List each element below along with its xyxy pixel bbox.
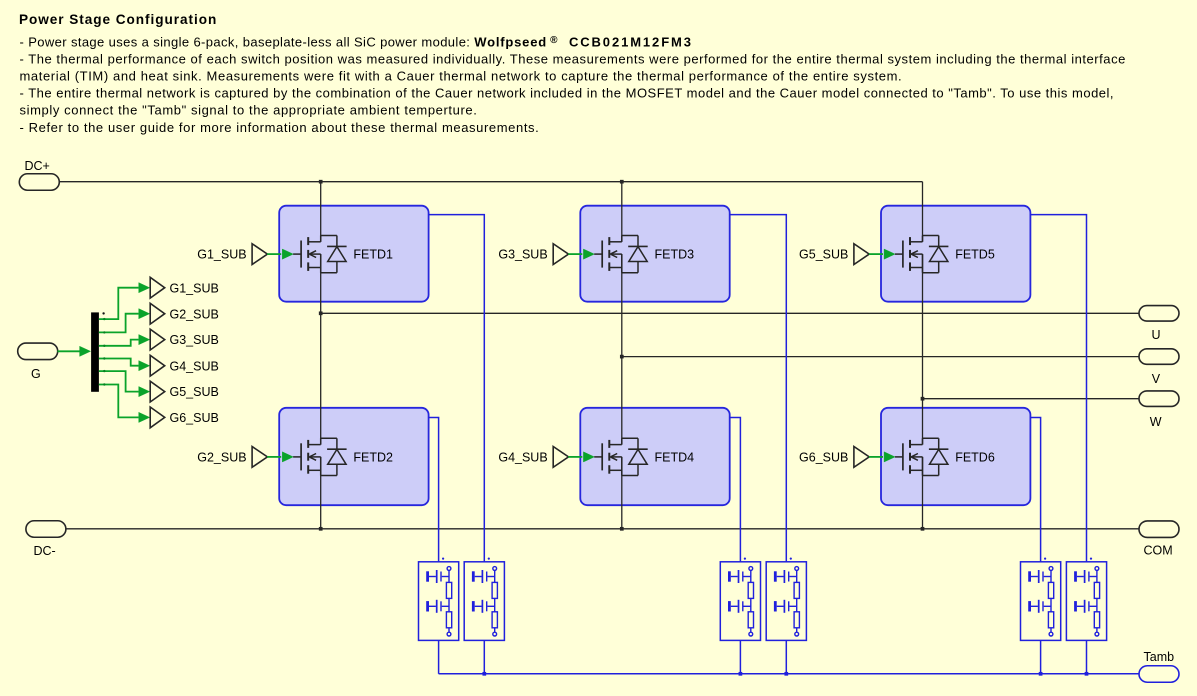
wire DC- bottom rail xyxy=(66,528,1140,530)
wire phase U xyxy=(321,312,1140,314)
svg-text:G6_SUB: G6_SUB xyxy=(799,451,848,465)
wire leg 1 lower source to DC- rail xyxy=(320,457,322,529)
svg-text:G2_SUB: G2_SUB xyxy=(170,307,219,321)
wire CAUER6 to Tamb bus xyxy=(1086,640,1088,673)
svg-text:G5_SUB: G5_SUB xyxy=(170,385,219,399)
svg-text:DC-: DC- xyxy=(34,544,56,558)
mosfet FETD2 xyxy=(293,438,347,475)
port COM xyxy=(1139,521,1179,538)
svg-text:- The entire thermal network i: - The entire thermal network is captured… xyxy=(20,86,1115,101)
svg-text:G4_SUB: G4_SUB xyxy=(170,359,219,373)
arrowhead at FETD4 gate xyxy=(583,452,594,462)
svg-text:FETD3: FETD3 xyxy=(655,248,695,262)
Cauer network CAUER5 box xyxy=(1021,562,1061,641)
Cauer network CAUER1 box xyxy=(419,562,459,641)
wire gate bus to G5_SUB goto xyxy=(99,371,139,392)
wire CAUER1 to Tamb bus xyxy=(438,640,440,673)
gate wire into FETD2 xyxy=(267,456,281,458)
mosfet FETD4 xyxy=(594,438,648,475)
arrowhead into G1_SUB goto xyxy=(139,283,150,293)
module box FETD6 xyxy=(881,408,1030,505)
module box FETD1 xyxy=(279,206,428,302)
wire CAUER5 to Tamb bus xyxy=(1040,640,1042,673)
Cauer network CAUER2 box xyxy=(464,562,504,641)
svg-text:G2_SUB: G2_SUB xyxy=(197,451,246,465)
wire leg 3 lower source to DC- rail xyxy=(922,457,924,529)
junction Tamb bus x1086 xyxy=(1085,672,1089,676)
wire G to gate bus xyxy=(57,350,80,352)
signal goto tag G1_SUB xyxy=(150,277,165,298)
module box FETD3 xyxy=(580,206,729,302)
svg-text:- Refer to the user guide for: - Refer to the user guide for more infor… xyxy=(20,120,540,135)
gate wire into FETD3 xyxy=(568,253,582,255)
signal goto tag G5_SUB xyxy=(150,381,165,402)
signal goto tag G3_SUB xyxy=(150,329,165,350)
svg-text:- Power stage uses a single 6-: - Power stage uses a single 6-pack, base… xyxy=(20,35,693,50)
arrowhead into G5_SUB goto xyxy=(139,387,150,397)
wire CAUER4 to Tamb bus xyxy=(785,640,787,673)
svg-text:FETD5: FETD5 xyxy=(955,248,995,262)
thermal wire FETD2 to Cauer xyxy=(429,418,439,562)
svg-text:Power Stage Configuration: Power Stage Configuration xyxy=(19,12,217,27)
mosfet FETD5 xyxy=(895,236,949,273)
port V xyxy=(1139,349,1179,365)
wire leg 2 drain upper xyxy=(621,182,623,242)
signal from tag for FETD4 gate xyxy=(553,447,568,468)
wire phase V xyxy=(622,356,1140,358)
junction Tamb bus x1040 xyxy=(1039,672,1043,676)
signal goto tag G6_SUB xyxy=(150,407,165,428)
gate wire into FETD1 xyxy=(267,253,281,255)
wire gate bus to G1_SUB goto xyxy=(99,288,139,319)
Cauer network CAUER4 box xyxy=(766,562,806,641)
mosfet FETD6 xyxy=(895,438,949,475)
gate bus bar xyxy=(91,312,99,391)
junction bottom rail / FETD4 source xyxy=(620,527,624,531)
port DC+ xyxy=(19,174,59,191)
svg-text:FETD2: FETD2 xyxy=(353,451,393,465)
wire phase W xyxy=(923,398,1140,400)
svg-text:G1_SUB: G1_SUB xyxy=(170,281,219,295)
wire leg 3 mid (upper source to lower drain) xyxy=(922,254,924,445)
svg-text:G6_SUB: G6_SUB xyxy=(170,411,219,425)
svg-text:G1_SUB: G1_SUB xyxy=(197,248,246,262)
svg-text:COM: COM xyxy=(1144,544,1173,558)
thermal wire FETD5 to Cauer xyxy=(1030,215,1086,562)
port DC- xyxy=(26,521,66,538)
svg-text:G3_SUB: G3_SUB xyxy=(170,333,219,347)
junction Tamb bus x484 xyxy=(482,672,486,676)
wire leg 1 drain upper xyxy=(320,182,322,242)
svg-text:W: W xyxy=(1150,415,1162,429)
arrowhead into G2_SUB goto xyxy=(139,309,150,319)
thermal wire FETD1 to Cauer xyxy=(429,215,485,562)
svg-text:DC+: DC+ xyxy=(25,159,50,173)
arrowhead into G3_SUB goto xyxy=(139,335,150,345)
svg-text:U: U xyxy=(1152,328,1161,342)
junction phase U / leg 1 xyxy=(319,311,323,315)
junction bottom rail / FETD2 source xyxy=(319,527,323,531)
arrowhead at FETD6 gate xyxy=(884,452,895,462)
arrowhead into G6_SUB goto xyxy=(139,412,150,422)
gate wire into FETD4 xyxy=(568,456,582,458)
arrowhead at FETD3 gate xyxy=(583,249,594,259)
signal from tag for FETD1 gate xyxy=(252,244,267,265)
arrowhead at FETD2 gate xyxy=(282,452,293,462)
svg-text:- The thermal performance of e: - The thermal performance of each switch… xyxy=(20,52,1126,67)
wire gate bus to G2_SUB goto xyxy=(99,314,139,333)
junction top rail / FETD3 drain xyxy=(620,180,624,184)
wire gate bus to G6_SUB goto xyxy=(99,385,139,418)
wire leg 3 drain upper xyxy=(922,182,924,242)
Cauer network CAUER6 box xyxy=(1066,562,1106,641)
svg-text:V: V xyxy=(1152,372,1161,386)
junction Tamb bus x740 xyxy=(739,672,743,676)
signal from tag for FETD5 gate xyxy=(854,244,869,265)
wire leg 1 mid (upper source to lower drain) xyxy=(320,254,322,445)
module box FETD2 xyxy=(279,408,428,505)
port G xyxy=(18,343,58,360)
mosfet FETD1 xyxy=(293,236,347,273)
wire Tamb bus xyxy=(439,673,1140,675)
wire gate bus to G4_SUB goto xyxy=(99,359,139,366)
arrowhead into gate bus xyxy=(80,346,91,356)
wire CAUER2 to Tamb bus xyxy=(483,640,485,673)
signal from tag for FETD2 gate xyxy=(252,447,267,468)
svg-text:G5_SUB: G5_SUB xyxy=(799,248,848,262)
wire DC+ top rail xyxy=(59,181,922,183)
signal goto tag G4_SUB xyxy=(150,355,165,376)
mosfet FETD3 xyxy=(594,236,648,273)
svg-text:FETD6: FETD6 xyxy=(955,451,995,465)
wire leg 2 mid (upper source to lower drain) xyxy=(621,254,623,445)
thermal wire FETD3 to Cauer xyxy=(730,215,787,562)
arrowhead at FETD1 gate xyxy=(282,249,293,259)
signal from tag for FETD3 gate xyxy=(553,244,568,265)
arrowhead into G4_SUB goto xyxy=(139,361,150,371)
svg-text:simply connect the "Tamb" sign: simply connect the "Tamb" signal to the … xyxy=(20,103,478,118)
wire CAUER3 to Tamb bus xyxy=(739,640,741,673)
svg-text:material (TIM) and heat sink.: material (TIM) and heat sink. Measuremen… xyxy=(20,69,903,84)
arrowhead at FETD5 gate xyxy=(884,249,895,259)
thermal wire FETD6 to Cauer xyxy=(1030,418,1040,562)
svg-text:G: G xyxy=(31,367,41,381)
port W xyxy=(1139,391,1179,407)
junction Tamb bus x786 xyxy=(784,672,788,676)
junction top rail / FETD1 drain xyxy=(319,180,323,184)
wire gate bus to G3_SUB goto xyxy=(99,340,139,346)
signal goto tag G2_SUB xyxy=(150,303,165,324)
junction phase V / leg 2 xyxy=(620,355,624,359)
port U xyxy=(1139,306,1179,322)
wire leg 2 lower source to DC- rail xyxy=(621,457,623,529)
signal from tag for FETD6 gate xyxy=(854,447,869,468)
svg-text:Tamb: Tamb xyxy=(1144,650,1175,664)
gate wire into FETD6 xyxy=(869,456,883,458)
svg-text:G4_SUB: G4_SUB xyxy=(498,451,547,465)
thermal wire FETD4 to Cauer xyxy=(730,418,741,562)
dot at gate bus top xyxy=(102,312,104,314)
svg-text:FETD4: FETD4 xyxy=(655,451,695,465)
svg-text:G3_SUB: G3_SUB xyxy=(498,248,547,262)
gate wire into FETD5 xyxy=(869,253,883,255)
module box FETD4 xyxy=(580,408,729,505)
Cauer network CAUER3 box xyxy=(720,562,760,641)
module box FETD5 xyxy=(881,206,1030,302)
junction phase W / leg 3 xyxy=(921,397,925,401)
junction bottom rail / FETD6 source xyxy=(921,527,925,531)
port Tamb xyxy=(1139,666,1179,683)
svg-text:FETD1: FETD1 xyxy=(353,248,393,262)
